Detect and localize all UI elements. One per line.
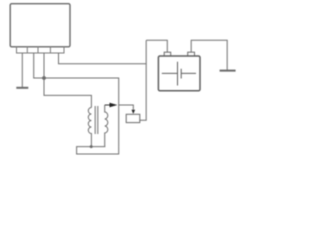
- ground (module): [16, 87, 28, 89]
- wire condenser to battery feed: [140, 40, 146, 120]
- battery BT1 cell symbol: [162, 62, 196, 86]
- wire battery positive lead: [146, 40, 167, 52]
- junction dot A: [42, 76, 46, 80]
- ignition coil T1 primary winding: [88, 108, 91, 147]
- module pin row (4 connector pins): [17, 47, 65, 53]
- wire battery negative to ground: [191, 40, 227, 70]
- wire pin3 to coil primary: [44, 53, 91, 108]
- battery BT1 terminal -: [188, 52, 195, 56]
- wire pin2 to breaker points line: [34, 53, 119, 154]
- wire pin1 to ground: [21, 53, 23, 88]
- ignition coil T1 secondary winding: [105, 105, 108, 147]
- breaker contact arrow (points): [105, 104, 111, 106]
- junction dot B: [90, 145, 93, 148]
- battery BT1 terminal +: [164, 52, 171, 56]
- ground (battery): [220, 70, 236, 72]
- battery BT1 case: [158, 56, 200, 91]
- wire pin4 to battery feed (T junction): [59, 53, 147, 64]
- condenser C1: [126, 114, 140, 122]
- wire points junction to condenser: [119, 105, 134, 110]
- ignition module U1 (ECU box): [10, 4, 70, 47]
- ignition coil T1 core: [95, 106, 98, 134]
- arrow into condenser: [132, 110, 136, 114]
